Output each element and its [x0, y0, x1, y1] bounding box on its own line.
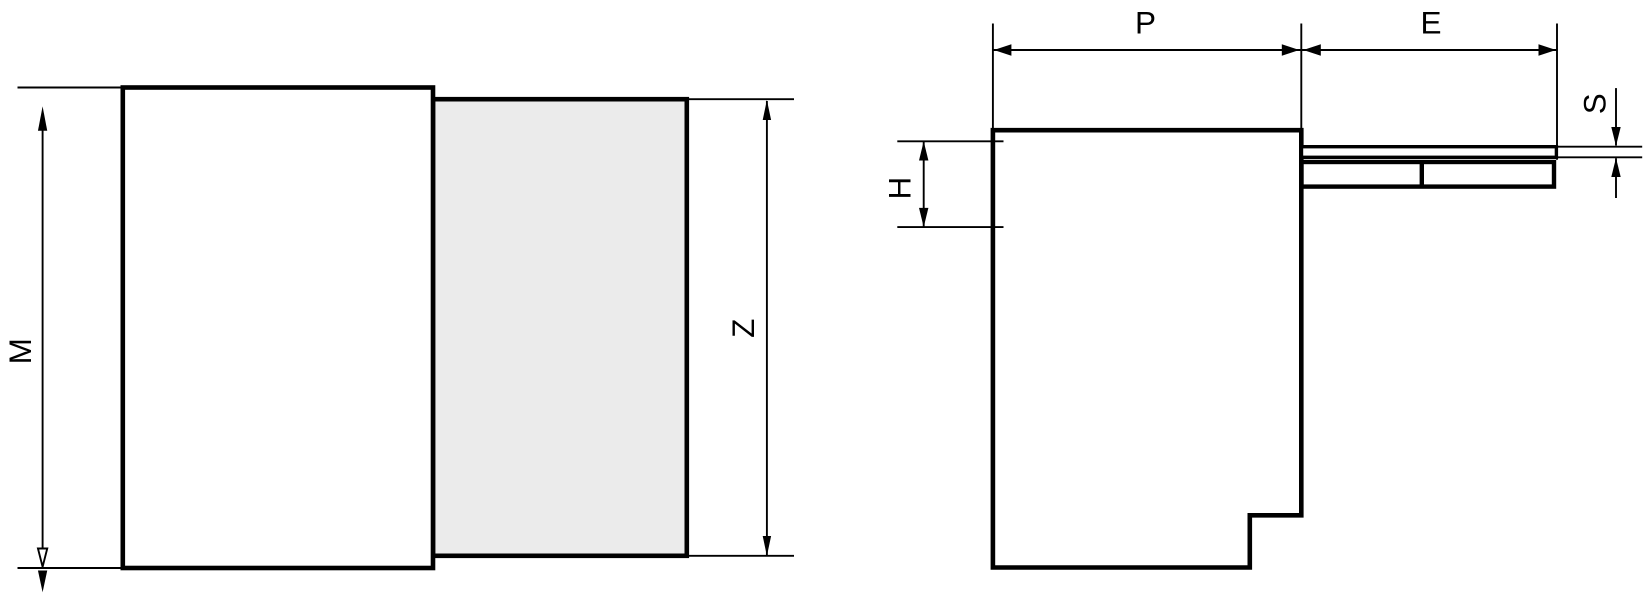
dimension Z bottom arrow (filled, down) [763, 536, 771, 556]
dimension E left arrow (filled, left) [1303, 44, 1321, 56]
dimension P line [993, 49, 1301, 51]
svg-text:M: M [2, 338, 38, 364]
svg-text:P: P [1135, 5, 1156, 41]
outer housing rectangle [123, 88, 433, 569]
dimension H bottom extension line [897, 226, 1003, 228]
thin top rail bar [1302, 147, 1557, 158]
dimension M bottom extension line [18, 567, 123, 569]
dimension H top extension line [897, 140, 1003, 142]
gray inner panel rectangle [433, 99, 687, 556]
svg-text:H: H [881, 177, 917, 200]
svg-text:S: S [1577, 93, 1613, 114]
dimension H top arrow (filled, up) [919, 141, 928, 160]
dimension M top extension line [18, 87, 123, 89]
dimension S lower arrow (filled, up) [1611, 158, 1620, 177]
lower tab bar [1302, 162, 1555, 187]
dimension S upper arrow (filled, down) [1611, 127, 1620, 146]
dimension S lower line segment [1615, 158, 1617, 198]
side view body outline with bottom-right notch [993, 130, 1301, 567]
dimension Z top extension line [687, 98, 794, 100]
dimension H line [923, 141, 925, 227]
dimension P/E shared extension line [1300, 24, 1302, 131]
dimension S top extension line [1556, 146, 1642, 148]
svg-text:E: E [1420, 5, 1441, 41]
dimension H bottom arrow (filled, down) [919, 208, 928, 227]
dimension M line [42, 128, 44, 549]
svg-text:Z: Z [725, 319, 761, 338]
dimension P right arrow (filled, right) [1282, 44, 1300, 56]
dimension S upper line segment [1615, 88, 1617, 145]
dimension Z line [766, 101, 768, 555]
dimension E right arrow (filled, right) [1539, 44, 1557, 56]
dimension Z bottom extension line [687, 555, 794, 557]
dimension P left extension line [992, 24, 994, 131]
lower tab divider [1420, 162, 1424, 187]
dimension S bottom extension line [1556, 156, 1642, 158]
dimension P left arrow (filled, left) [994, 44, 1012, 56]
dimension Z top arrow (filled, up) [763, 100, 771, 120]
dimension M bottom open arrow (down) [38, 549, 47, 567]
dimension M below-line filled arrow (down) [38, 571, 47, 593]
dimension E right extension line [1556, 24, 1558, 160]
dimension E line [1301, 49, 1557, 51]
dimension M top arrow (filled, up) [38, 106, 47, 130]
